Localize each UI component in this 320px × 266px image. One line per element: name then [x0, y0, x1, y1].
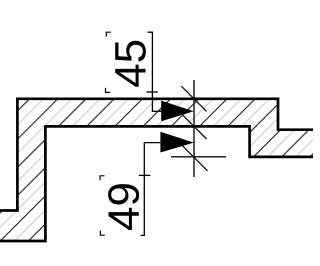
- weld mark bottom horizontal arm: [171, 156, 226, 158]
- dimension 49 text frame bracket top-left: [100, 176, 105, 181]
- weld mark X top: [181, 86, 206, 111]
- part outline: top edge with right step: [16, 99, 313, 130]
- weld triangle upper: [161, 101, 194, 122]
- dimension 45 text frame bracket top-left: [106, 32, 111, 37]
- dimension 49 leader and extension line: [141, 143, 161, 236]
- dimension 45 leader and extension line: [148, 32, 162, 111]
- part outline: left edge with step: [0, 98, 17, 211]
- dimension text 49: [108, 184, 139, 230]
- dimension 49 tick: [139, 174, 150, 176]
- weld mark X middle: [181, 114, 206, 139]
- part outline: band bottom edge with right step: [45, 126, 313, 156]
- weld mark X bottom: [182, 145, 208, 171]
- part outline: inner leg edge and bottom edge: [0, 125, 45, 241]
- weld joint line: [193, 80, 195, 177]
- left angle part hatched section: [0, 99, 194, 241]
- dimension 45 tick: [147, 91, 158, 93]
- dimension 45 text frame bracket bottom-left: [106, 88, 111, 93]
- right joggled plate hatched section: [194, 99, 316, 157]
- dimension 49 text frame bracket bottom-left: [100, 231, 105, 236]
- weld triangle lower: [160, 132, 193, 153]
- dimension text 45: [115, 41, 146, 87]
